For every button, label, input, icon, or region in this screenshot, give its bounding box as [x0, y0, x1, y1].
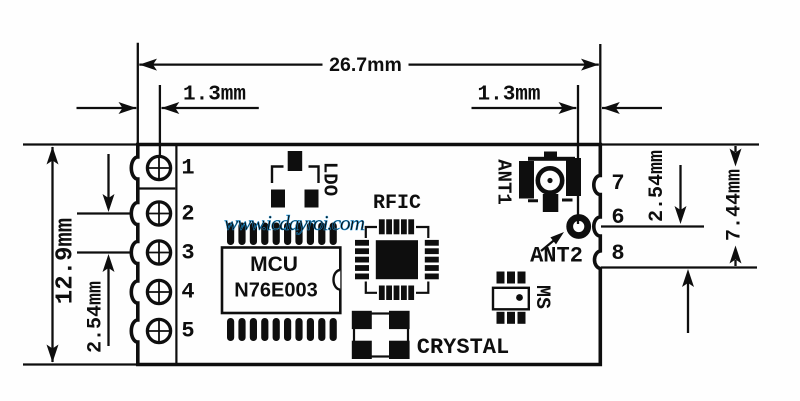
svg-text:5: 5: [181, 319, 194, 344]
ANT1 bottom dashes: [528, 199, 573, 203]
svg-text:1.3mm: 1.3mm: [183, 84, 246, 107]
svg-text:12.9mm: 12.9mm: [53, 218, 80, 304]
svg-text:2.54mm: 2.54mm: [85, 281, 108, 353]
svg-text:26.7mm: 26.7mm: [329, 54, 402, 76]
pad 4: [147, 280, 170, 303]
svg-text:N76E003: N76E003: [234, 280, 317, 302]
LDO bottom-right pad: [305, 190, 319, 208]
dimension 1.3mm right: [472, 85, 663, 224]
svg-text:2: 2: [181, 202, 194, 227]
MCU body: [222, 248, 340, 314]
svg-text:3: 3: [181, 241, 194, 266]
RFIC top pins: [379, 219, 414, 234]
LDO left bracket: [272, 167, 284, 184]
MCU notch: [333, 270, 340, 290]
ANT1 connector circle: [538, 168, 562, 192]
RFIC corner brackets: [366, 227, 429, 293]
RFIC right pins: [425, 240, 439, 279]
ANT2 pad ring: [570, 218, 588, 236]
ANT1 bottom pad: [543, 194, 559, 212]
right stub arrow: [602, 107, 662, 109]
pad 1: [147, 156, 170, 179]
LDO bottom-left pad: [271, 190, 285, 208]
pad 3: [147, 241, 170, 264]
dimension 2.54mm left: [77, 154, 131, 346]
MS top pins: [497, 272, 526, 284]
bottom extension line: [23, 363, 139, 365]
svg-text:ANT2: ANT2: [530, 244, 583, 269]
svg-text:MCU: MCU: [250, 253, 298, 276]
svg-text:MS: MS: [530, 285, 553, 309]
up arrow: [107, 268, 109, 346]
pad 2: [147, 202, 170, 225]
CRYSTAL outline: [354, 314, 408, 357]
MS pin1 dot: [516, 294, 523, 301]
RFIC bottom pins: [379, 286, 414, 301]
svg-text:1: 1: [181, 156, 194, 181]
left stub arrow: [77, 107, 137, 109]
svg-text:LDO: LDO: [319, 162, 341, 196]
MS body: [493, 288, 529, 310]
dimension 2.54mm right: [675, 165, 687, 224]
up arrow: [47, 147, 59, 165]
svg-text:ANT1: ANT1: [493, 159, 515, 205]
extension line left (26.7): [137, 43, 139, 143]
ANT1 top tab: [544, 152, 557, 160]
dimension 1.3mm left: [77, 85, 259, 156]
MS bottom pins: [497, 312, 526, 324]
up arrow below pad 8 line: [682, 269, 694, 333]
RFIC left pins: [355, 240, 369, 279]
svg-text:www.icdayroi.com: www.icdayroi.com: [224, 211, 365, 235]
26.7mm dim line right part with arrow: [409, 63, 599, 65]
top-right edge extension line: [602, 143, 759, 145]
right arrow line: [162, 107, 259, 109]
pad 5: [147, 319, 170, 342]
top extension line: [23, 143, 139, 145]
dimension 7.44mm: [730, 146, 742, 266]
LDO right bracket: [309, 167, 319, 184]
extension line ANT pin: [577, 85, 579, 224]
svg-text:RFIC: RFIC: [373, 192, 421, 215]
ANT1 right pad: [566, 158, 581, 196]
left line with arrow: [472, 107, 577, 109]
top down-arrow: [734, 146, 736, 152]
LDO top pad: [288, 151, 303, 171]
svg-text:CRYSTAL: CRYSTAL: [417, 335, 509, 360]
dimension 12.9mm: [23, 145, 139, 365]
down arrow: [47, 345, 59, 363]
svg-text:7: 7: [611, 171, 624, 196]
down arrow line: [679, 165, 681, 210]
svg-text:1.3mm: 1.3mm: [477, 84, 540, 107]
terminal separator below pad 1: [139, 187, 175, 189]
pad 8 extension line: [601, 266, 757, 268]
bottom up-arrow: [734, 260, 736, 266]
svg-text:7.44mm: 7.44mm: [724, 169, 747, 241]
ANT1 center dot: [547, 178, 552, 183]
ANT1 top bar: [528, 157, 575, 161]
svg-text:4: 4: [181, 280, 194, 305]
svg-text:2.54mm: 2.54mm: [646, 150, 669, 222]
MCU top pins: [227, 223, 337, 246]
dimension 26.7mm: [138, 43, 601, 143]
ANT2 arrow: [541, 232, 564, 251]
svg-text:8: 8: [611, 241, 624, 266]
down arrow: [107, 154, 109, 198]
MCU bottom pins: [227, 318, 337, 341]
26.7mm dim line left part with arrow: [139, 63, 322, 65]
RFIC center pad: [376, 240, 418, 279]
board outline: [131, 145, 600, 365]
ANT1 left pad: [519, 161, 534, 199]
CRYSTAL pads: [352, 311, 410, 359]
terminal block column line: [175, 146, 177, 363]
extension line pad1 center: [159, 85, 161, 156]
pad 6 extension line: [601, 225, 704, 227]
extension line pad3: [77, 251, 131, 253]
extension line right (26.7): [599, 44, 601, 143]
extension line pad2: [77, 212, 131, 214]
vertical dim line: [51, 147, 53, 362]
